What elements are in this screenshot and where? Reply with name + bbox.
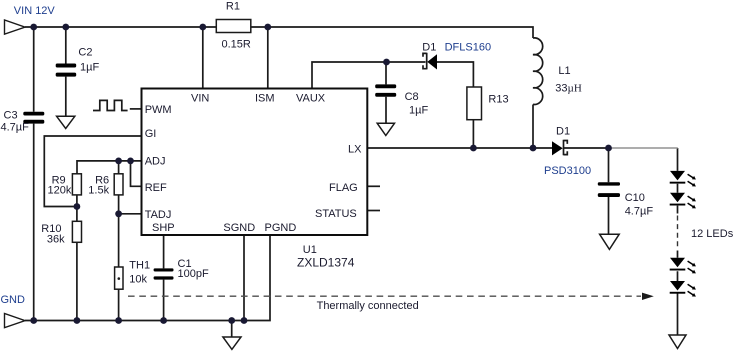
svg-text:REF: REF [145,182,167,194]
svg-text:R1: R1 [226,1,240,13]
ground symbol on GND rail [223,337,241,349]
svg-text:C2: C2 [78,47,92,59]
node rail C3 [30,317,37,324]
connector VIN input triangle [5,20,26,34]
wire LED string column [677,148,679,335]
ground symbol under C2 [57,116,75,128]
wire SGND drop [243,235,245,321]
ground symbol under C8 [377,123,394,135]
svg-text:C8: C8 [405,91,419,103]
wire C8 branch [385,62,387,123]
node D1-C10 [605,145,612,152]
node ADJ-REF [127,158,134,165]
svg-text:100pF: 100pF [178,268,209,280]
wire PWM stub [130,108,142,110]
svg-text:VIN 12V: VIN 12V [14,5,56,17]
svg-text:PSD3100: PSD3100 [544,165,591,177]
svg-text:C10: C10 [625,192,645,204]
thermally connected arrowhead [642,293,654,300]
resistor R9 [72,174,81,195]
svg-text:FLAG: FLAG [329,182,358,194]
svg-text:12 LEDs: 12 LEDs [691,228,734,240]
wire C2 branch [65,27,67,116]
LED D4 [670,258,696,274]
wire GND rail and PGND riser [25,235,270,321]
ground symbol under C10 [600,234,620,249]
LED D5 [670,281,696,297]
svg-text:36k: 36k [47,233,65,245]
svg-text:10k: 10k [129,274,147,286]
svg-text:PWM: PWM [145,104,172,116]
LED D2 [670,171,696,187]
node ISM pin [264,24,271,31]
node ADJ-R6 [115,158,122,165]
wire C3 branch [33,27,35,321]
node VIN-C3 [30,24,37,31]
node rail C1 [160,317,167,324]
svg-text:VIN: VIN [191,93,209,105]
svg-text:GND: GND [1,294,26,306]
svg-text:U1: U1 [303,244,317,256]
svg-text:TADJ: TADJ [145,209,172,221]
wire mid ground stub [231,321,233,338]
capacitor C10 [598,182,620,197]
wire STATUS stub [367,210,380,212]
node L1-LX [530,145,537,152]
svg-text:120k: 120k [48,184,72,196]
svg-text:DFLS160: DFLS160 [445,42,491,54]
svg-text:PGND: PGND [265,222,297,234]
wire VIN pin drop [202,27,204,89]
wire GI to R9/R10 junction [44,136,141,207]
svg-text:33µH: 33µH [555,82,582,94]
svg-text:SGND: SGND [223,222,255,234]
wire R13 bottom [472,120,474,148]
capacitor C8 [375,84,396,96]
thermally connected dashed line [128,295,641,297]
svg-text:0.15R: 0.15R [222,39,251,51]
wire ADJ line to R9 top [77,161,142,174]
svg-text:ADJ: ADJ [145,156,166,168]
wire SHP to C1 [163,235,165,321]
resistor R13 [467,87,482,120]
LED D3 [670,193,696,209]
ground symbol under LED string [669,335,686,349]
svg-text:1.5k: 1.5k [88,185,109,197]
connector GND input triangle [5,314,26,328]
thermistor TH1 [115,267,123,289]
wire R9 bottom / R10 top [76,195,78,221]
wire TH1 top/bottom [118,214,120,321]
node rail R10 [74,317,81,324]
node rail TH1 [115,317,122,324]
wire VAUX riser [312,62,387,89]
svg-text:C3: C3 [4,109,18,121]
capacitor C1 [154,268,174,279]
resistor R6 [114,174,123,195]
wire DFLS160 anode to R13 top [437,62,473,87]
resistor R10 [72,221,81,242]
node rail gnd [228,317,235,324]
wire L1 bottom [532,105,534,149]
svg-text:GI: GI [145,128,157,140]
wire R6 bottom to TADJ node [118,195,120,214]
wire gray node to LED string [612,147,678,149]
svg-text:TH1: TH1 [129,259,150,271]
svg-text:SHP: SHP [152,222,175,234]
capacitor C2 [56,64,76,77]
svg-text:VAUX: VAUX [296,93,326,105]
node rail SGND [241,317,248,324]
wire REF riser [131,161,142,186]
svg-text:L1: L1 [558,65,570,77]
wire R1 right to L1 corner [251,27,533,38]
svg-text:4.7µF: 4.7µF [1,121,30,133]
svg-text:Thermally connected: Thermally connected [317,300,419,312]
wire top rail VIN [25,26,216,28]
svg-text:D1: D1 [556,126,570,138]
wire TADJ stub [119,213,142,215]
svg-text:R13: R13 [488,94,508,106]
wire ISM pin drop [267,27,269,89]
wire FLAG stub [367,185,380,187]
node R9-R10-GI [74,203,81,210]
op-amp U1 IC box ZXLD1374 [142,89,368,236]
PWM square wave symbol [93,100,128,110]
node VIN pin [199,24,206,31]
node dots [30,24,612,324]
node TADJ-R6-TH1 [115,210,122,217]
wire VAUX node to DFLS160 [387,61,426,63]
inductor L1 [533,38,543,105]
node VIN-C2 [62,24,69,31]
wire C10 branch [608,148,610,234]
wire dashed LED gap [677,216,679,250]
svg-text:1µF: 1µF [80,61,99,73]
svg-text:ZXLD1374: ZXLD1374 [297,256,355,270]
svg-text:4.7µF: 4.7µF [625,206,654,218]
wire R6 top [118,161,120,174]
resistor R1 [216,20,251,33]
diode D1 PSD3100 (schottky, pointing right) [552,140,567,156]
svg-text:ISM: ISM [255,93,275,105]
wire LX line [367,147,552,149]
node VAUX-C8 [383,59,390,66]
diode D1 DFLS160 (schottky, pointing left) [423,53,437,70]
wire R10 bottom [76,242,78,320]
svg-text:1µF: 1µF [409,105,428,117]
svg-text:STATUS: STATUS [315,208,357,220]
wire PSD3100 cathode to node [564,147,609,149]
svg-text:D1: D1 [422,41,436,53]
capacitor C3 [23,112,44,124]
node R13-LX [470,145,477,152]
svg-text:LX: LX [348,144,362,156]
